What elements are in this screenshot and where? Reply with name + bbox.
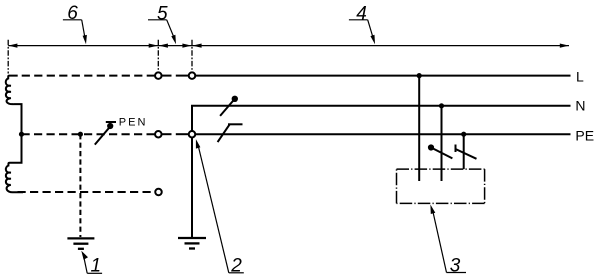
disconnect symbol on PE conductor	[218, 124, 230, 142]
svg-text:3: 3	[450, 255, 461, 276]
svg-text:6: 6	[67, 3, 78, 24]
terminal circle on third winding line	[155, 189, 162, 196]
terminal circle on PEN at x158	[155, 131, 162, 138]
svg-text:5: 5	[157, 3, 168, 24]
leader for label 3	[430, 205, 435, 215]
svg-text:4: 4	[356, 4, 367, 25]
wire PE drop to equipment	[463, 134, 465, 169]
dimension arrow at x192 pointing left	[192, 44, 201, 48]
terminal circle on L at x192	[189, 72, 196, 79]
label 5 leader and shelf	[148, 19, 167, 21]
svg-text:1: 1	[91, 256, 102, 277]
wire L dashed segment from source	[22, 75, 155, 77]
svg-text:L: L	[576, 68, 584, 84]
extension line at x158	[157, 40, 159, 71]
ground electrode 1 (source earth)	[67, 237, 94, 239]
junction dot PE tap	[461, 132, 466, 137]
dimension arrow right end	[560, 44, 569, 48]
wire PEN dashed from neutral node	[22, 133, 155, 135]
dimension arrow at x158 pointing left	[159, 44, 168, 48]
winding W2 bottom coil of source	[6, 134, 23, 192]
svg-text:2: 2	[230, 255, 242, 276]
wire PE earthing conductor at split	[191, 137, 193, 237]
disconnect symbol on PEN conductor	[95, 127, 110, 145]
disconnect symbol on N drop	[428, 144, 434, 150]
node PEN earthing tap	[78, 132, 83, 137]
node neutral point of source	[19, 132, 24, 137]
wire L dashed between terminals	[162, 75, 172, 77]
dimension arrow left end	[8, 44, 17, 48]
wire from W1 to neutral node	[14, 104, 22, 134]
wire N drop to equipment	[441, 106, 443, 181]
wire L solid	[195, 75, 570, 77]
wire L drop to equipment	[418, 76, 420, 181]
wire PEN dashed between terminals	[162, 133, 172, 135]
dimension line spanning items 6,5,4	[8, 45, 569, 47]
dimension arrow at x192 pointing right	[182, 44, 191, 48]
label 6 leader and shelf	[63, 19, 82, 21]
leader for label 2	[196, 139, 201, 149]
terminal circle split point PEN to PE+N	[189, 131, 196, 138]
wire N riser from PE split	[192, 106, 571, 131]
junction dot L tap	[417, 73, 422, 78]
label 4 leader and shelf	[349, 19, 368, 21]
leader for label 1	[81, 251, 88, 260]
terminal circle on L at x158	[155, 72, 162, 79]
dimension arrow at x158 pointing right	[149, 44, 158, 48]
extension line at x192	[191, 40, 193, 71]
winding W1 top phase coil of source	[6, 76, 18, 105]
disconnect symbol on N conductor	[220, 99, 234, 116]
junction dot N tap	[439, 103, 444, 108]
disconnect symbol on PE drop	[455, 145, 457, 153]
svg-text:PEN: PEN	[119, 117, 148, 129]
extension line left at x8	[7, 40, 9, 74]
ground electrode 2 (main earthing terminal)	[178, 237, 206, 239]
svg-text:PE: PE	[575, 128, 594, 144]
equipment outline box 3 (chain line)	[397, 168, 485, 170]
svg-text:N: N	[575, 98, 585, 114]
wire PE solid	[195, 133, 570, 135]
wire third winding dashed	[18, 191, 156, 193]
wire dashed earthing conductor of source	[79, 134, 81, 237]
